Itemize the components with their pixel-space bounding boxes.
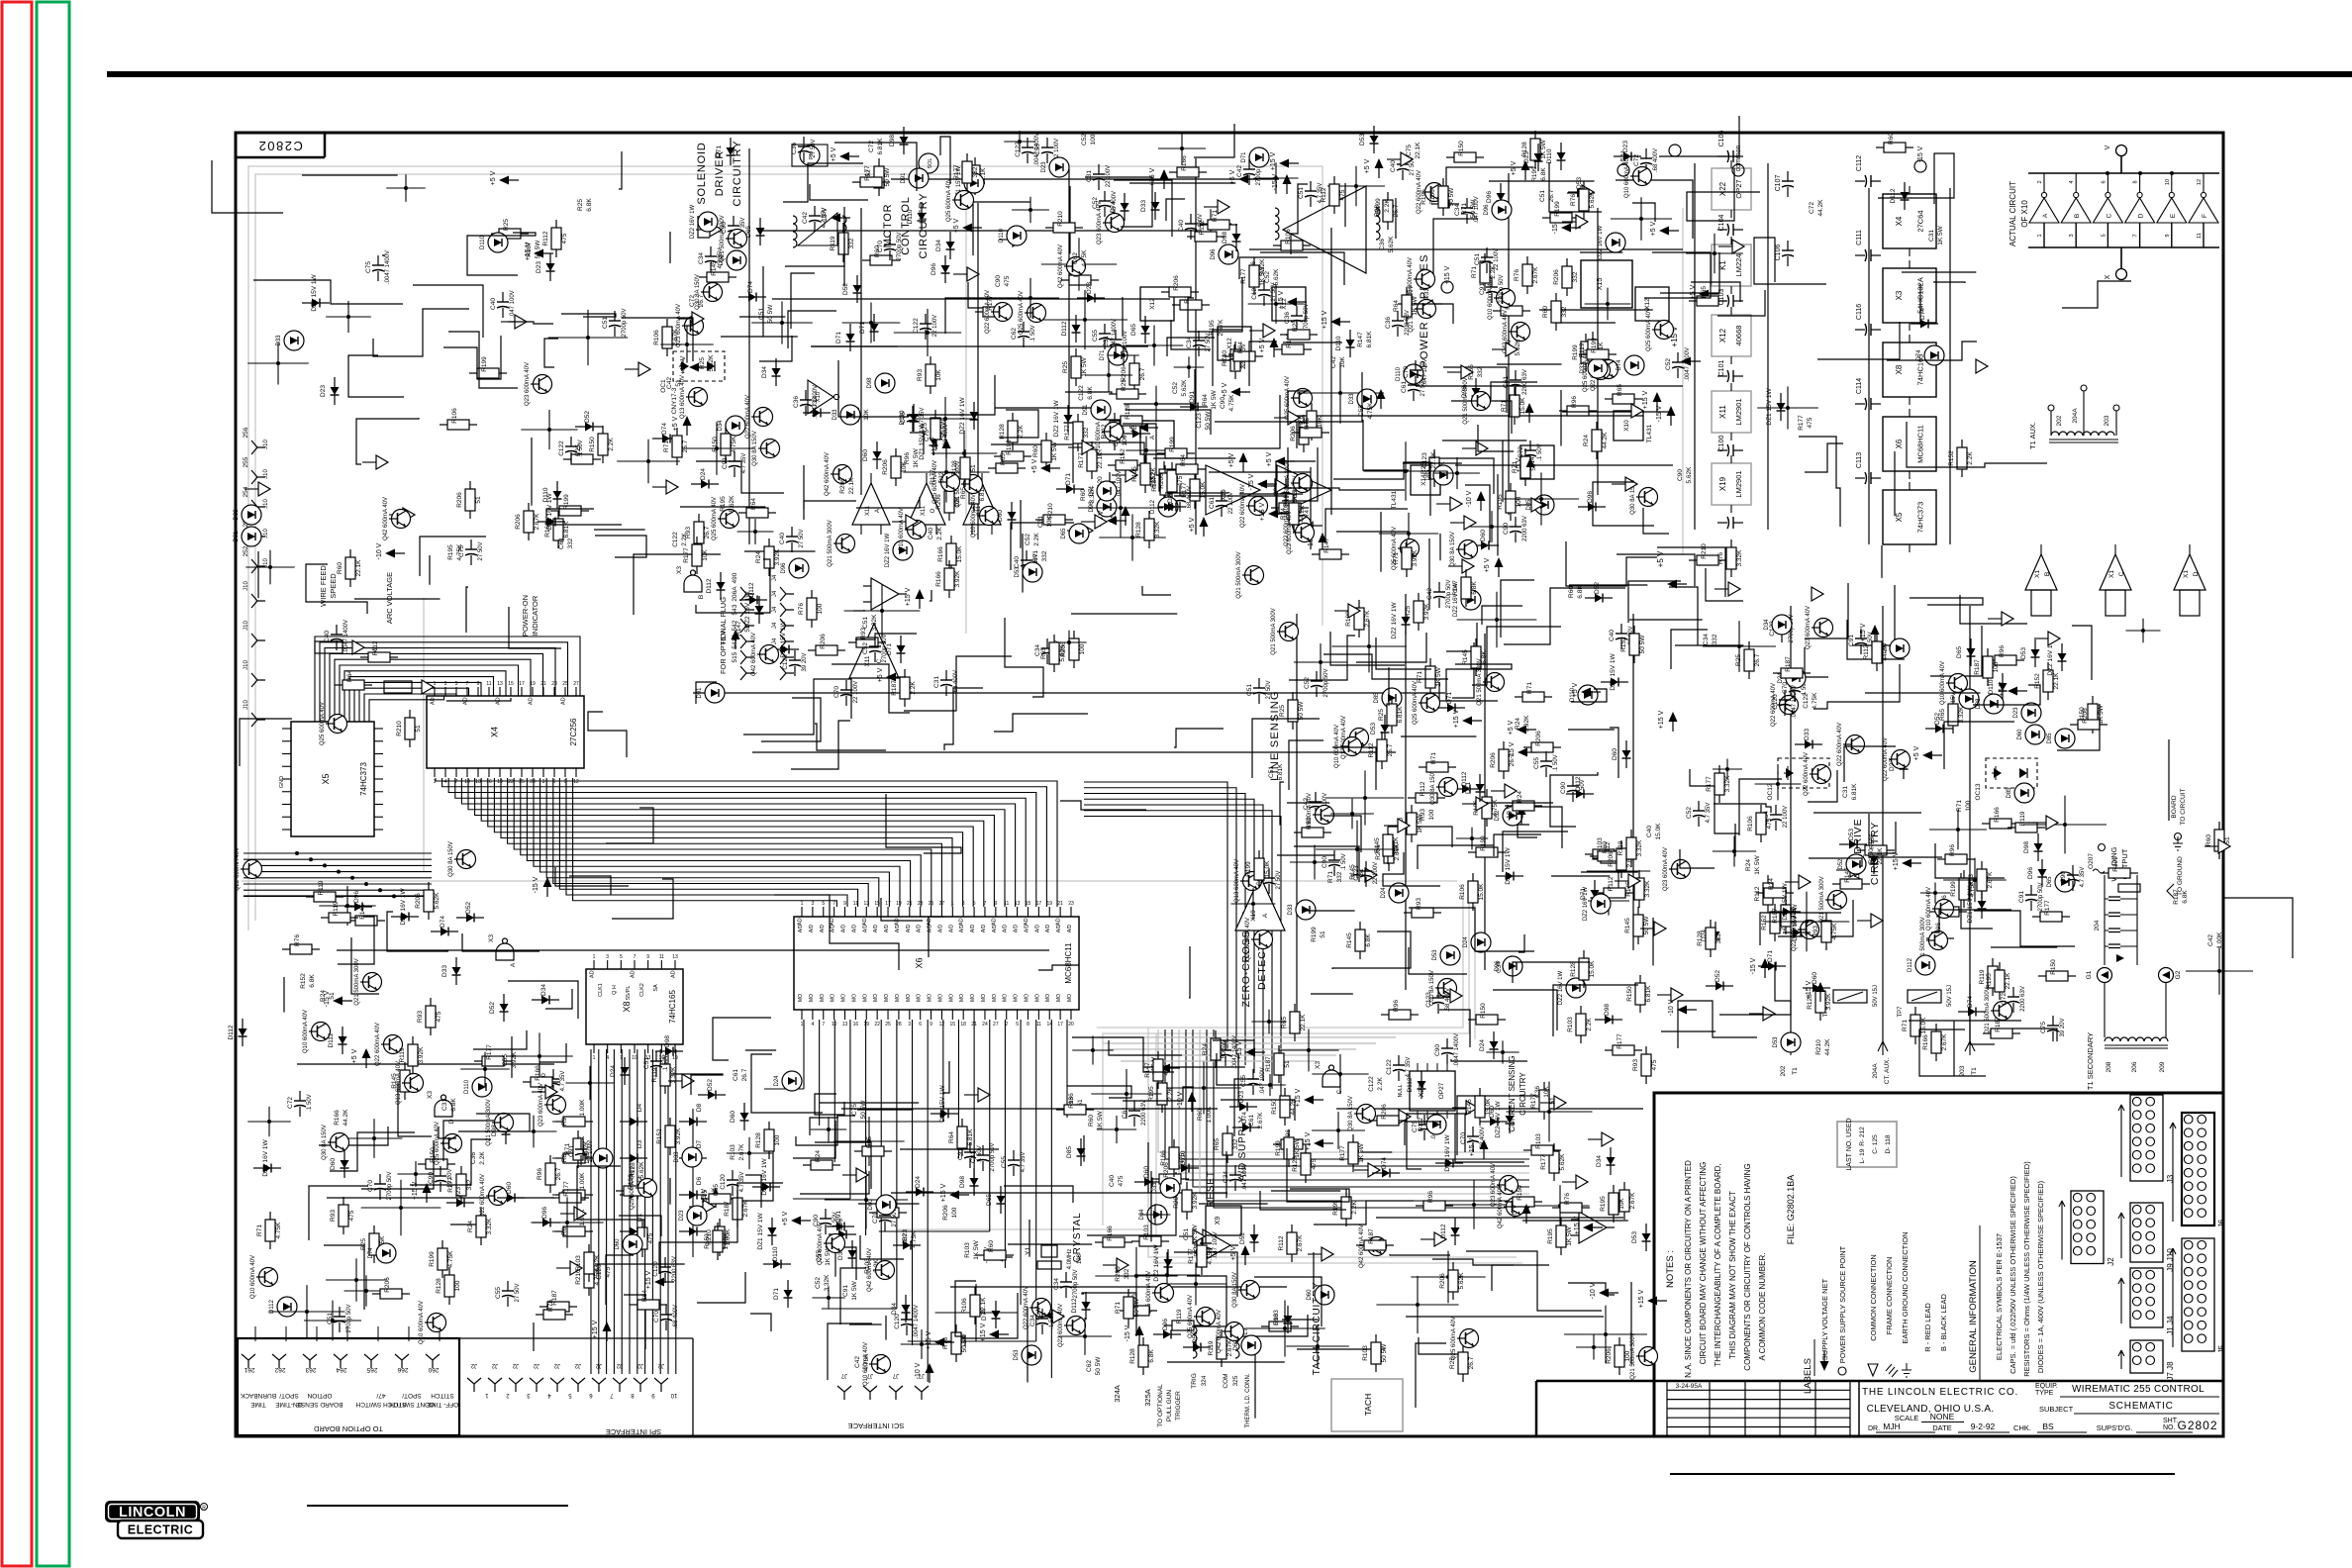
svg-text:+5 V: +5 V <box>1230 1245 1237 1260</box>
svg-text:74HC373: 74HC373 <box>359 762 368 796</box>
svg-text:X1: X1 <box>2183 570 2190 578</box>
svg-text:19: 19 <box>1046 901 1052 907</box>
svg-text:2.67K: 2.67K <box>672 329 679 346</box>
svg-text:A/D: A/D <box>970 924 976 932</box>
svg-text:22.1K: 22.1K <box>1430 451 1437 469</box>
svg-text:LABELS: LABELS <box>1803 1358 1813 1394</box>
svg-text:R65: R65 <box>713 1184 720 1196</box>
svg-text:C31: C31 <box>933 676 940 688</box>
svg-text:C91: C91 <box>1479 283 1486 295</box>
svg-text:A/D: A/D <box>959 924 965 932</box>
svg-text:490: 490 <box>732 572 738 583</box>
svg-text:Q21 500mA 300V: Q21 500mA 300V <box>1819 876 1825 923</box>
svg-text:D96: D96 <box>1495 960 1501 972</box>
svg-text:C51: C51 <box>758 308 765 320</box>
svg-text:22 100V: 22 100V <box>853 681 859 703</box>
svg-text:C106: C106 <box>1775 245 1782 261</box>
svg-text:C112: C112 <box>1856 155 1863 171</box>
svg-text:2700p 50V: 2700p 50V <box>990 1142 996 1171</box>
svg-text:D24: D24 <box>610 1065 617 1077</box>
svg-text:2700p 50V: 2700p 50V <box>1499 274 1505 303</box>
svg-text:R177: R177 <box>563 1181 570 1197</box>
svg-text:.047 100V: .047 100V <box>1117 470 1123 497</box>
svg-text:2.67K: 2.67K <box>1941 1033 1948 1051</box>
svg-text:C40: C40 <box>324 631 331 642</box>
svg-text:Q22 600mA 40V: Q22 600mA 40V <box>235 847 241 891</box>
svg-text:D34: D34 <box>1596 1155 1603 1167</box>
svg-text:206: 206 <box>2131 1061 2138 1072</box>
svg-text:R150: R150 <box>1868 848 1875 864</box>
svg-text:J2: J2 <box>533 1362 539 1368</box>
svg-text:3-24-95A: 3-24-95A <box>1676 1383 1703 1390</box>
svg-text:22.1K: 22.1K <box>355 559 362 577</box>
svg-text:J2: J2 <box>491 1362 498 1368</box>
svg-text:CNY17-3: CNY17-3 <box>671 387 678 414</box>
svg-text:DZ2 16V 1W: DZ2 16V 1W <box>1444 1134 1451 1172</box>
svg-text:DZ2 16V 1W: DZ2 16V 1W <box>690 204 696 239</box>
svg-text:R195: R195 <box>1986 973 1993 989</box>
svg-text:R64: R64 <box>1180 454 1187 466</box>
svg-text:51: 51 <box>970 464 977 472</box>
svg-text:3.32K: 3.32K <box>1736 549 1743 567</box>
svg-text:R65: R65 <box>1939 709 1946 721</box>
svg-text:D53: D53 <box>1015 566 1021 578</box>
svg-text:R76: R76 <box>294 934 301 946</box>
svg-text:Q25 600mA 40V: Q25 600mA 40V <box>320 702 326 745</box>
svg-text:B: B <box>2074 214 2081 218</box>
svg-text:50 5W: 50 5W <box>884 167 891 187</box>
svg-text:+15 V: +15 V <box>1444 265 1451 284</box>
svg-text:.047 100V: .047 100V <box>1242 1163 1248 1190</box>
svg-text:+15 V: +15 V <box>645 1270 652 1289</box>
svg-text:2700p 50V: 2700p 50V <box>387 1171 393 1200</box>
svg-text:A/D: A/D <box>917 924 923 932</box>
svg-text:C120: C120 <box>720 1174 727 1190</box>
svg-text:R128: R128 <box>951 460 958 476</box>
svg-text:C36: C36 <box>1284 312 1291 324</box>
svg-text:4.75K: 4.75K <box>1228 394 1235 412</box>
svg-text:5: 5 <box>1016 1022 1019 1028</box>
svg-text:26.7: 26.7 <box>1387 743 1394 756</box>
svg-text:J10: J10 <box>244 621 249 631</box>
svg-text:R150: R150 <box>1458 141 1465 156</box>
svg-text:MO: MO <box>895 994 901 1002</box>
svg-text:C34: C34 <box>1703 634 1710 645</box>
svg-text:1.00K: 1.00K <box>1206 1106 1213 1124</box>
svg-text:C34: C34 <box>1029 1315 1036 1326</box>
svg-text:C90: C90 <box>995 275 1002 287</box>
svg-text:A/D: A/D <box>884 924 890 932</box>
svg-text:R206: R206 <box>1608 851 1615 867</box>
svg-text:R65: R65 <box>1701 286 1708 298</box>
svg-text:+15 V: +15 V <box>1295 1088 1302 1107</box>
svg-text:332: 332 <box>1561 306 1568 317</box>
svg-text:R199: R199 <box>1572 344 1579 360</box>
svg-text:D7: D7 <box>696 1139 703 1148</box>
svg-text:22.1K: 22.1K <box>2005 972 2011 990</box>
svg-text:R150: R150 <box>1517 1185 1523 1201</box>
svg-text:5: 5 <box>2101 234 2107 237</box>
svg-text:6.8K: 6.8K <box>586 198 593 212</box>
svg-text:22 100V: 22 100V <box>1106 165 1112 187</box>
svg-text:+5 V: +5 V <box>1690 284 1697 299</box>
svg-text:-10 V: -10 V <box>1590 1282 1597 1299</box>
svg-text:R187: R187 <box>724 1201 731 1217</box>
svg-text:4.75K: 4.75K <box>911 1230 918 1248</box>
svg-text:4: 4 <box>811 1022 814 1028</box>
svg-text:C123: C123 <box>1425 992 1432 1008</box>
svg-text:332: 332 <box>1124 1268 1130 1279</box>
svg-text:R206: R206 <box>2082 708 2089 724</box>
svg-text:THERM. LD. CONN.: THERM. LD. CONN. <box>1245 1373 1251 1427</box>
svg-text:D96: D96 <box>1162 1319 1169 1330</box>
svg-text:THE LINCOLN ELECTRIC CO.: THE LINCOLN ELECTRIC CO. <box>1862 1387 2018 1398</box>
svg-text:MO: MO <box>937 994 943 1002</box>
svg-text:475: 475 <box>605 1266 612 1277</box>
svg-text:R65: R65 <box>1281 1017 1288 1029</box>
svg-text:R60: R60 <box>1542 306 1549 318</box>
svg-text:R93: R93 <box>1420 809 1426 821</box>
svg-text:D110: D110 <box>1546 148 1553 163</box>
svg-text:R152: R152 <box>1120 448 1127 464</box>
svg-text:15.0K: 15.0K <box>1920 1017 1927 1034</box>
svg-text:J10: J10 <box>244 700 249 710</box>
svg-text:D98: D98 <box>1222 232 1228 244</box>
svg-text:51: 51 <box>1358 868 1365 876</box>
svg-text:D65: D65 <box>585 1152 591 1164</box>
svg-text:Q23 600mA 40V: Q23 600mA 40V <box>1097 201 1103 245</box>
svg-text:1: 1 <box>801 1022 804 1028</box>
svg-text:13: 13 <box>842 1022 848 1028</box>
svg-text:R206: R206 <box>1173 275 1180 291</box>
svg-text:Q22 600mA 40V: Q22 600mA 40V <box>1058 1304 1064 1347</box>
svg-text:2.67K: 2.67K <box>738 1143 745 1161</box>
svg-text:15.0K: 15.0K <box>1478 883 1485 901</box>
svg-text:X11: X11 <box>921 505 927 516</box>
svg-text:R60: R60 <box>988 1240 995 1252</box>
svg-text:D52: D52 <box>1239 1232 1246 1244</box>
svg-text:R206: R206 <box>384 1277 391 1293</box>
svg-text:209: 209 <box>2159 1061 2166 1072</box>
svg-text:R71: R71 <box>1212 210 1219 222</box>
svg-text:OC13: OC13 <box>1975 783 1982 800</box>
svg-text:D60: D60 <box>1612 748 1618 760</box>
svg-text:C111: C111 <box>1856 230 1863 245</box>
svg-text:R65: R65 <box>1000 453 1007 465</box>
svg-text:51: 51 <box>475 496 482 504</box>
svg-text:C52: C52 <box>862 642 869 654</box>
svg-text:3.32K: 3.32K <box>871 614 878 632</box>
svg-text:.1 50V: .1 50V <box>1030 325 1036 342</box>
svg-text:D71: D71 <box>716 146 723 157</box>
svg-text:A: A <box>2042 213 2049 218</box>
svg-text:DZ2 16V 1W: DZ2 16V 1W <box>262 1139 269 1177</box>
svg-text:C55: C55 <box>502 1054 509 1066</box>
svg-text:X3: X3 <box>1895 290 1904 300</box>
svg-text:Q13 600mA 40V: Q13 600mA 40V <box>1234 859 1240 903</box>
svg-text:D23: D23 <box>1622 141 1629 152</box>
svg-text:C75: C75 <box>900 412 907 424</box>
svg-text:C122: C122 <box>672 532 679 547</box>
svg-text:B: B <box>2044 572 2051 576</box>
svg-text:C90: C90 <box>1503 523 1510 535</box>
svg-text:R199: R199 <box>1275 1140 1282 1156</box>
svg-text:.68 400V: .68 400V <box>1653 148 1659 172</box>
svg-text:G2802: G2802 <box>2177 1419 2217 1432</box>
svg-text:D91: D91 <box>1083 404 1089 416</box>
svg-text:C91: C91 <box>2018 891 2025 903</box>
svg-text:J7 J8: J7 J8 <box>2166 1361 2175 1381</box>
svg-text:TL431: TL431 <box>1646 424 1653 442</box>
svg-text:2200 63V: 2200 63V <box>1522 516 1528 541</box>
svg-text:10: 10 <box>670 1392 677 1398</box>
svg-text:CAPS. = ufd (.022/50V UNLESS O: CAPS. = ufd (.022/50V UNLESS OTHERWISE S… <box>2009 1176 2017 1374</box>
svg-text:R206: R206 <box>1115 1266 1122 1282</box>
svg-text:A: A <box>510 962 517 967</box>
svg-text:3.92K: 3.92K <box>1423 603 1430 621</box>
svg-text:C72: C72 <box>1518 446 1524 458</box>
svg-text:J5: J5 <box>2217 1344 2226 1353</box>
svg-text:R103: R103 <box>1567 1017 1574 1032</box>
svg-text:44.2K: 44.2K <box>343 1109 349 1127</box>
svg-text:A/D: A/D <box>798 924 804 932</box>
svg-text:D34: D34 <box>761 366 768 378</box>
svg-text:R166: R166 <box>1181 155 1188 171</box>
svg-text:G2: G2 <box>2175 970 2182 979</box>
svg-text:D23: D23 <box>1041 161 1047 173</box>
svg-text:R24: R24 <box>815 1150 822 1162</box>
svg-text:Q10 600mA 40V: Q10 600mA 40V <box>971 494 977 538</box>
svg-text:C90: C90 <box>1677 469 1684 481</box>
svg-text:SPOT/: SPOT/ <box>402 1392 422 1399</box>
svg-text:A/D: A/D <box>992 924 998 932</box>
svg-text:50 5W: 50 5W <box>1643 916 1650 935</box>
svg-text:X11: X11 <box>865 505 871 516</box>
svg-text:100: 100 <box>1079 643 1086 654</box>
svg-text:D53: D53 <box>1370 723 1377 735</box>
svg-text:BS: BS <box>2042 1421 2054 1431</box>
svg-text:J10: J10 <box>244 660 249 670</box>
svg-text:3.92K: 3.92K <box>1412 549 1419 567</box>
svg-text:X8: X8 <box>622 1001 632 1012</box>
svg-text:D23: D23 <box>320 385 327 397</box>
svg-text:C31: C31 <box>1842 786 1849 798</box>
svg-text:203: 203 <box>1959 1065 1966 1076</box>
svg-text:262: 262 <box>274 1366 285 1373</box>
svg-text:2.2K: 2.2K <box>1167 1087 1174 1101</box>
svg-text:2.2K: 2.2K <box>1018 425 1025 439</box>
svg-text:475: 475 <box>1004 275 1011 286</box>
svg-text:C51: C51 <box>1183 1228 1190 1240</box>
svg-text:R106: R106 <box>653 330 660 345</box>
svg-text:TACH: TACH <box>1363 1394 1373 1417</box>
svg-text:50 5W: 50 5W <box>1639 635 1646 654</box>
svg-text:R145: R145 <box>1346 932 1353 948</box>
svg-text:475: 475 <box>561 233 568 244</box>
svg-text:C52: C52 <box>1172 382 1179 394</box>
svg-text:R210: R210 <box>396 721 403 736</box>
svg-text:COMMON CONNECTION: COMMON CONNECTION <box>1869 1254 1878 1341</box>
svg-text:4.7 35V: 4.7 35V <box>1406 1057 1412 1078</box>
svg-text:475: 475 <box>1807 417 1813 428</box>
svg-text:3.92K: 3.92K <box>954 570 961 588</box>
svg-text:STITCH: STITCH <box>431 1392 454 1399</box>
svg-text:A/D: A/D <box>841 924 847 932</box>
svg-text:+5 V: +5 V <box>351 1048 358 1063</box>
svg-text:Q25 600mA 40V: Q25 600mA 40V <box>1646 308 1652 351</box>
svg-text:R150: R150 <box>1626 986 1633 1002</box>
svg-text:16: 16 <box>486 779 492 785</box>
svg-text:10: 10 <box>2165 179 2171 185</box>
svg-text:R25: R25 <box>503 219 510 231</box>
svg-text:D71: D71 <box>1446 692 1453 704</box>
svg-text:22 100V: 22 100V <box>1228 492 1234 514</box>
svg-text:C122: C122 <box>1078 385 1085 401</box>
svg-text:475: 475 <box>436 1011 442 1022</box>
svg-text:CLK2: CLK2 <box>639 983 645 997</box>
svg-text:D24: D24 <box>1381 887 1387 899</box>
svg-text:25: 25 <box>885 1022 891 1028</box>
svg-text:4: 4 <box>444 779 447 785</box>
svg-text:204A: 204A <box>2072 408 2079 424</box>
svg-text:4.7 35V: 4.7 35V <box>741 453 747 474</box>
svg-text:R150: R150 <box>1271 1099 1278 1115</box>
svg-text:C42: C42 <box>854 1356 861 1368</box>
svg-text:C52: C52 <box>1686 807 1693 819</box>
svg-text:SPI INTERFACE: SPI INTERFACE <box>606 1427 661 1436</box>
svg-text:R106: R106 <box>1747 816 1754 832</box>
svg-text:1K 5W: 1K 5W <box>1211 389 1218 409</box>
svg-text:39 20V: 39 20V <box>2060 1018 2066 1036</box>
svg-text:C70: C70 <box>833 686 840 698</box>
svg-text:R103: R103 <box>575 1255 582 1271</box>
svg-text:19: 19 <box>896 901 902 907</box>
svg-text:OFF- TIME: OFF- TIME <box>426 1401 458 1408</box>
svg-text:LM2901: LM2901 <box>1734 398 1743 425</box>
svg-text:MC68HC11: MC68HC11 <box>1064 942 1073 984</box>
svg-text:2.2K: 2.2K <box>1967 451 1974 465</box>
svg-text:2.2K: 2.2K <box>479 1151 486 1165</box>
svg-text:C: C <box>2118 571 2125 576</box>
svg-text:D33: D33 <box>234 509 240 521</box>
svg-text:D91: D91 <box>234 531 240 542</box>
svg-text:Q23 600mA 40V: Q23 600mA 40V <box>1806 606 1812 649</box>
svg-text:R106: R106 <box>961 1298 968 1314</box>
svg-text:Q25 600mA 40V: Q25 600mA 40V <box>630 1166 636 1210</box>
svg-text:+5 V: +5 V <box>701 1188 708 1203</box>
svg-text:R166: R166 <box>334 1110 341 1126</box>
svg-text:100: 100 <box>1516 496 1522 507</box>
svg-text:Q10 600mA 40V: Q10 600mA 40V <box>250 1255 256 1299</box>
svg-text:1K 5W: 1K 5W <box>1937 225 1944 245</box>
svg-text:R119: R119 <box>1617 840 1624 855</box>
svg-text:J10: J10 <box>244 581 249 591</box>
svg-text:D52: D52 <box>489 1002 496 1014</box>
svg-text:2.67K: 2.67K <box>1987 871 1994 889</box>
svg-text:7: 7 <box>2133 234 2139 237</box>
svg-text:50 5W: 50 5W <box>767 304 774 324</box>
svg-text:Q25 600mA 40V: Q25 600mA 40V <box>946 178 952 222</box>
svg-text:R147: R147 <box>1357 332 1364 347</box>
svg-text:100: 100 <box>817 603 824 614</box>
svg-text:6.81K: 6.81K <box>877 138 884 155</box>
svg-text:255: 255 <box>243 456 249 467</box>
svg-text:X12: X12 <box>1149 298 1156 310</box>
svg-text:D65: D65 <box>1130 324 1137 336</box>
svg-text:S5/PL: S5/PL <box>626 986 632 1001</box>
svg-text:R177: R177 <box>1188 1248 1195 1264</box>
svg-text:543: 543 <box>732 604 738 615</box>
svg-text:R128: R128 <box>436 1278 442 1294</box>
svg-text:C104: C104 <box>1718 215 1725 232</box>
svg-text:C40: C40 <box>1646 826 1653 837</box>
svg-text:ARC VOLTAGE: ARC VOLTAGE <box>385 572 394 624</box>
svg-text:C36: C36 <box>793 396 800 408</box>
svg-text:Q22 600mA 40V: Q22 600mA 40V <box>1287 511 1293 554</box>
svg-text:26.7: 26.7 <box>555 1167 562 1180</box>
svg-text:T1: T1 <box>1792 1067 1799 1075</box>
svg-text:Q21 500mA 300V: Q21 500mA 300V <box>1271 608 1277 654</box>
svg-text:+5 V: +5 V <box>1222 382 1228 397</box>
svg-text:C31: C31 <box>1103 336 1110 347</box>
svg-text:6.8K: 6.8K <box>1577 585 1584 599</box>
svg-text:R206: R206 <box>1381 1104 1388 1120</box>
svg-text:-15 V: -15 V <box>533 876 539 893</box>
svg-text:D74: D74 <box>1381 1157 1388 1169</box>
svg-text:475: 475 <box>1311 1158 1318 1169</box>
svg-text:9: 9 <box>2165 234 2171 237</box>
svg-text:10K: 10K <box>863 409 870 421</box>
svg-text:R199: R199 <box>1006 440 1013 455</box>
svg-text:R152: R152 <box>656 1128 663 1144</box>
svg-text:13: 13 <box>475 779 481 785</box>
svg-text:J6: J6 <box>2217 1219 2226 1227</box>
svg-text:5.62K: 5.62K <box>1388 236 1395 253</box>
svg-text:Q10 600mA 40V: Q10 600mA 40V <box>419 1301 425 1344</box>
svg-text:1K 5W: 1K 5W <box>1566 1225 1573 1245</box>
svg-text:C40: C40 <box>1014 556 1021 568</box>
svg-text:NONE: NONE <box>1930 1412 1955 1421</box>
svg-text:D33: D33 <box>1804 729 1811 740</box>
svg-text:2.2K: 2.2K <box>681 533 688 546</box>
svg-text:C51: C51 <box>1474 253 1481 265</box>
svg-text:Q30 8A 150V: Q30 8A 150V <box>1450 532 1456 567</box>
svg-text:3.92K: 3.92K <box>418 1046 425 1064</box>
svg-text:1K 5W: 1K 5W <box>1435 666 1442 686</box>
svg-text:Q21 500mA 300V: Q21 500mA 300V <box>1477 658 1483 705</box>
svg-text:D71: D71 <box>886 643 893 655</box>
svg-text:44.2K: 44.2K <box>594 1254 601 1272</box>
svg-text:R64: R64 <box>346 670 353 682</box>
svg-text:6.81K: 6.81K <box>563 521 570 539</box>
svg-text:D33: D33 <box>833 409 838 421</box>
svg-text:R210: R210 <box>1057 211 1064 227</box>
svg-text:J2: J2 <box>637 1362 643 1368</box>
svg-text:R145: R145 <box>1624 918 1631 933</box>
svg-text:R177: R177 <box>930 469 936 485</box>
svg-text:D4: D4 <box>637 1103 643 1112</box>
svg-text:WIREMATIC 255 CONTROL: WIREMATIC 255 CONTROL <box>2072 1384 2205 1395</box>
svg-text:R119: R119 <box>1208 1340 1215 1355</box>
svg-text:+5 V: +5 V <box>1999 681 2006 696</box>
svg-text:J4: J4 <box>772 606 778 613</box>
svg-text:3: 3 <box>606 954 609 960</box>
svg-text:332: 332 <box>848 238 855 248</box>
svg-text:50 5W: 50 5W <box>1448 187 1455 207</box>
svg-text:Q22 600mA 40V: Q22 600mA 40V <box>1240 484 1246 528</box>
svg-text:D23: D23 <box>1167 491 1174 503</box>
svg-text:R195: R195 <box>1131 466 1138 482</box>
